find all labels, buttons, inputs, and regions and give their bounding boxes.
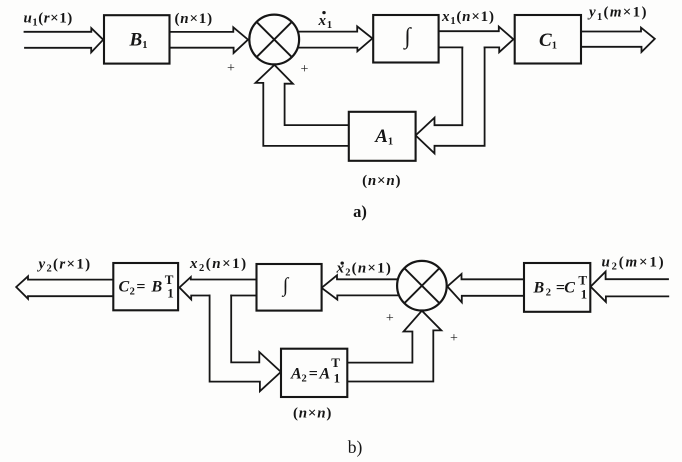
wire: integrator b to C2 bus top line with arrowhead <box>179 277 256 299</box>
wire: summer to integrator bus with open arrowhead <box>299 26 372 51</box>
svg-text:u2(m×1): u2(m×1) <box>602 254 666 272</box>
svg-text:(n×n): (n×n) <box>293 406 332 422</box>
block integrator a <box>373 15 438 63</box>
svg-text:(n×n): (n×n) <box>362 173 401 189</box>
block B1 <box>104 15 170 63</box>
wire: x1 tap down, arrowhead into A1 right side <box>416 47 485 153</box>
svg-text:1: 1 <box>581 286 588 301</box>
summer a circle <box>249 15 299 65</box>
svg-text:T: T <box>331 355 340 370</box>
svg-text:x1(n×1): x1(n×1) <box>441 9 495 27</box>
summer a cross <box>257 22 292 57</box>
svg-text:+: + <box>301 62 309 77</box>
svg-text:1: 1 <box>167 286 174 301</box>
block integrator b <box>257 264 322 311</box>
block C1 <box>515 15 581 64</box>
summer b circle <box>397 261 447 311</box>
block C2 <box>113 263 178 310</box>
wire: summer b to integrator b bus with arrowhead <box>322 275 398 299</box>
svg-text:u1(r×1): u1(r×1) <box>24 10 73 28</box>
wire: A1 output to summer a feedback with hollow up arrowhead <box>256 65 349 146</box>
svg-text:x2(n×1): x2(n×1) <box>336 260 393 278</box>
wire: A2 output to summer b feedback with hollow up arrowhead <box>347 311 441 382</box>
wire: u2 input bus into B2 with arrowhead <box>591 272 669 302</box>
wire: x2 tap down, arrowhead into A2 left side <box>210 296 281 392</box>
block A2 <box>281 349 347 397</box>
summer b cross <box>404 268 439 303</box>
svg-text:a): a) <box>353 202 367 221</box>
block B2 <box>524 263 590 312</box>
svg-text:+: + <box>227 61 235 76</box>
wire: integrator to C1 bus bottom-left segment <box>439 46 463 48</box>
wire: integrator b to C2 bus bottom right segment <box>231 295 256 297</box>
svg-text:b): b) <box>348 437 363 457</box>
block A1 <box>349 112 416 161</box>
wire: u1 input bus into B1 with open arrowhead <box>25 28 104 52</box>
wire: C1 output arrow y1 <box>581 28 655 52</box>
svg-text:y1(m×1): y1(m×1) <box>587 5 648 23</box>
svg-text:A2=A: A2=A <box>290 365 331 384</box>
svg-text:C2=B: C2=B <box>119 279 163 298</box>
svg-text:1: 1 <box>334 371 341 386</box>
svg-text:y2(r×1): y2(r×1) <box>37 256 92 274</box>
wire: B2 to summer b bus with arrowhead <box>447 274 524 302</box>
svg-text:x2(n×1): x2(n×1) <box>189 256 248 274</box>
wire: integrator to C1 bus top line <box>439 27 514 53</box>
wire: y2 output arrow from C2 <box>16 276 113 299</box>
svg-text:+: + <box>450 331 458 346</box>
svg-text:(n×1): (n×1) <box>175 11 213 27</box>
svg-text:+: + <box>386 311 394 326</box>
wire: B1 to summer bus with open arrowhead <box>170 27 249 53</box>
